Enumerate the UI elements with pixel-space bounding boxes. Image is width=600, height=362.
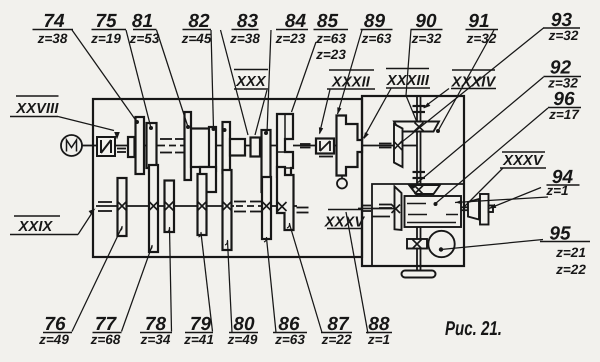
svg-text:Рис. 21.: Рис. 21. [445, 318, 502, 340]
svg-text:z=49: z=49 [38, 332, 69, 347]
svg-text:z=38: z=38 [229, 31, 260, 46]
svg-text:z=32: z=32 [548, 28, 579, 43]
svg-text:z=41: z=41 [183, 332, 214, 347]
svg-text:XXXII: XXXII [331, 75, 371, 91]
svg-text:z=22: z=22 [321, 332, 352, 347]
svg-text:z=19: z=19 [90, 31, 121, 46]
svg-text:XXIX: XXIX [18, 219, 54, 235]
svg-text:XXXIII: XXXIII [386, 73, 430, 89]
svg-text:z=63: z=63 [361, 31, 392, 46]
svg-text:z=17: z=17 [548, 107, 580, 122]
svg-text:z=63: z=63 [274, 332, 305, 347]
svg-text:z=38: z=38 [37, 31, 68, 46]
svg-text:z=32: z=32 [466, 31, 497, 46]
svg-text:z=1: z=1 [367, 332, 390, 347]
svg-text:z=23: z=23 [315, 47, 346, 62]
svg-text:z=68: z=68 [90, 332, 121, 347]
svg-text:z=49: z=49 [227, 332, 258, 347]
svg-text:z=21: z=21 [555, 245, 586, 260]
svg-text:z=63: z=63 [315, 31, 346, 46]
svg-text:z=34: z=34 [140, 332, 171, 347]
svg-text:z=23: z=23 [275, 31, 306, 46]
svg-text:XXX: XXX [235, 74, 267, 90]
svg-text:XXXV: XXXV [502, 153, 544, 169]
svg-text:z=22: z=22 [555, 262, 586, 277]
svg-text:XXVIII: XXVIII [15, 101, 59, 117]
svg-text:z=32: z=32 [411, 31, 442, 46]
svg-text:z=45: z=45 [181, 31, 212, 46]
svg-text:z=53: z=53 [129, 31, 160, 46]
